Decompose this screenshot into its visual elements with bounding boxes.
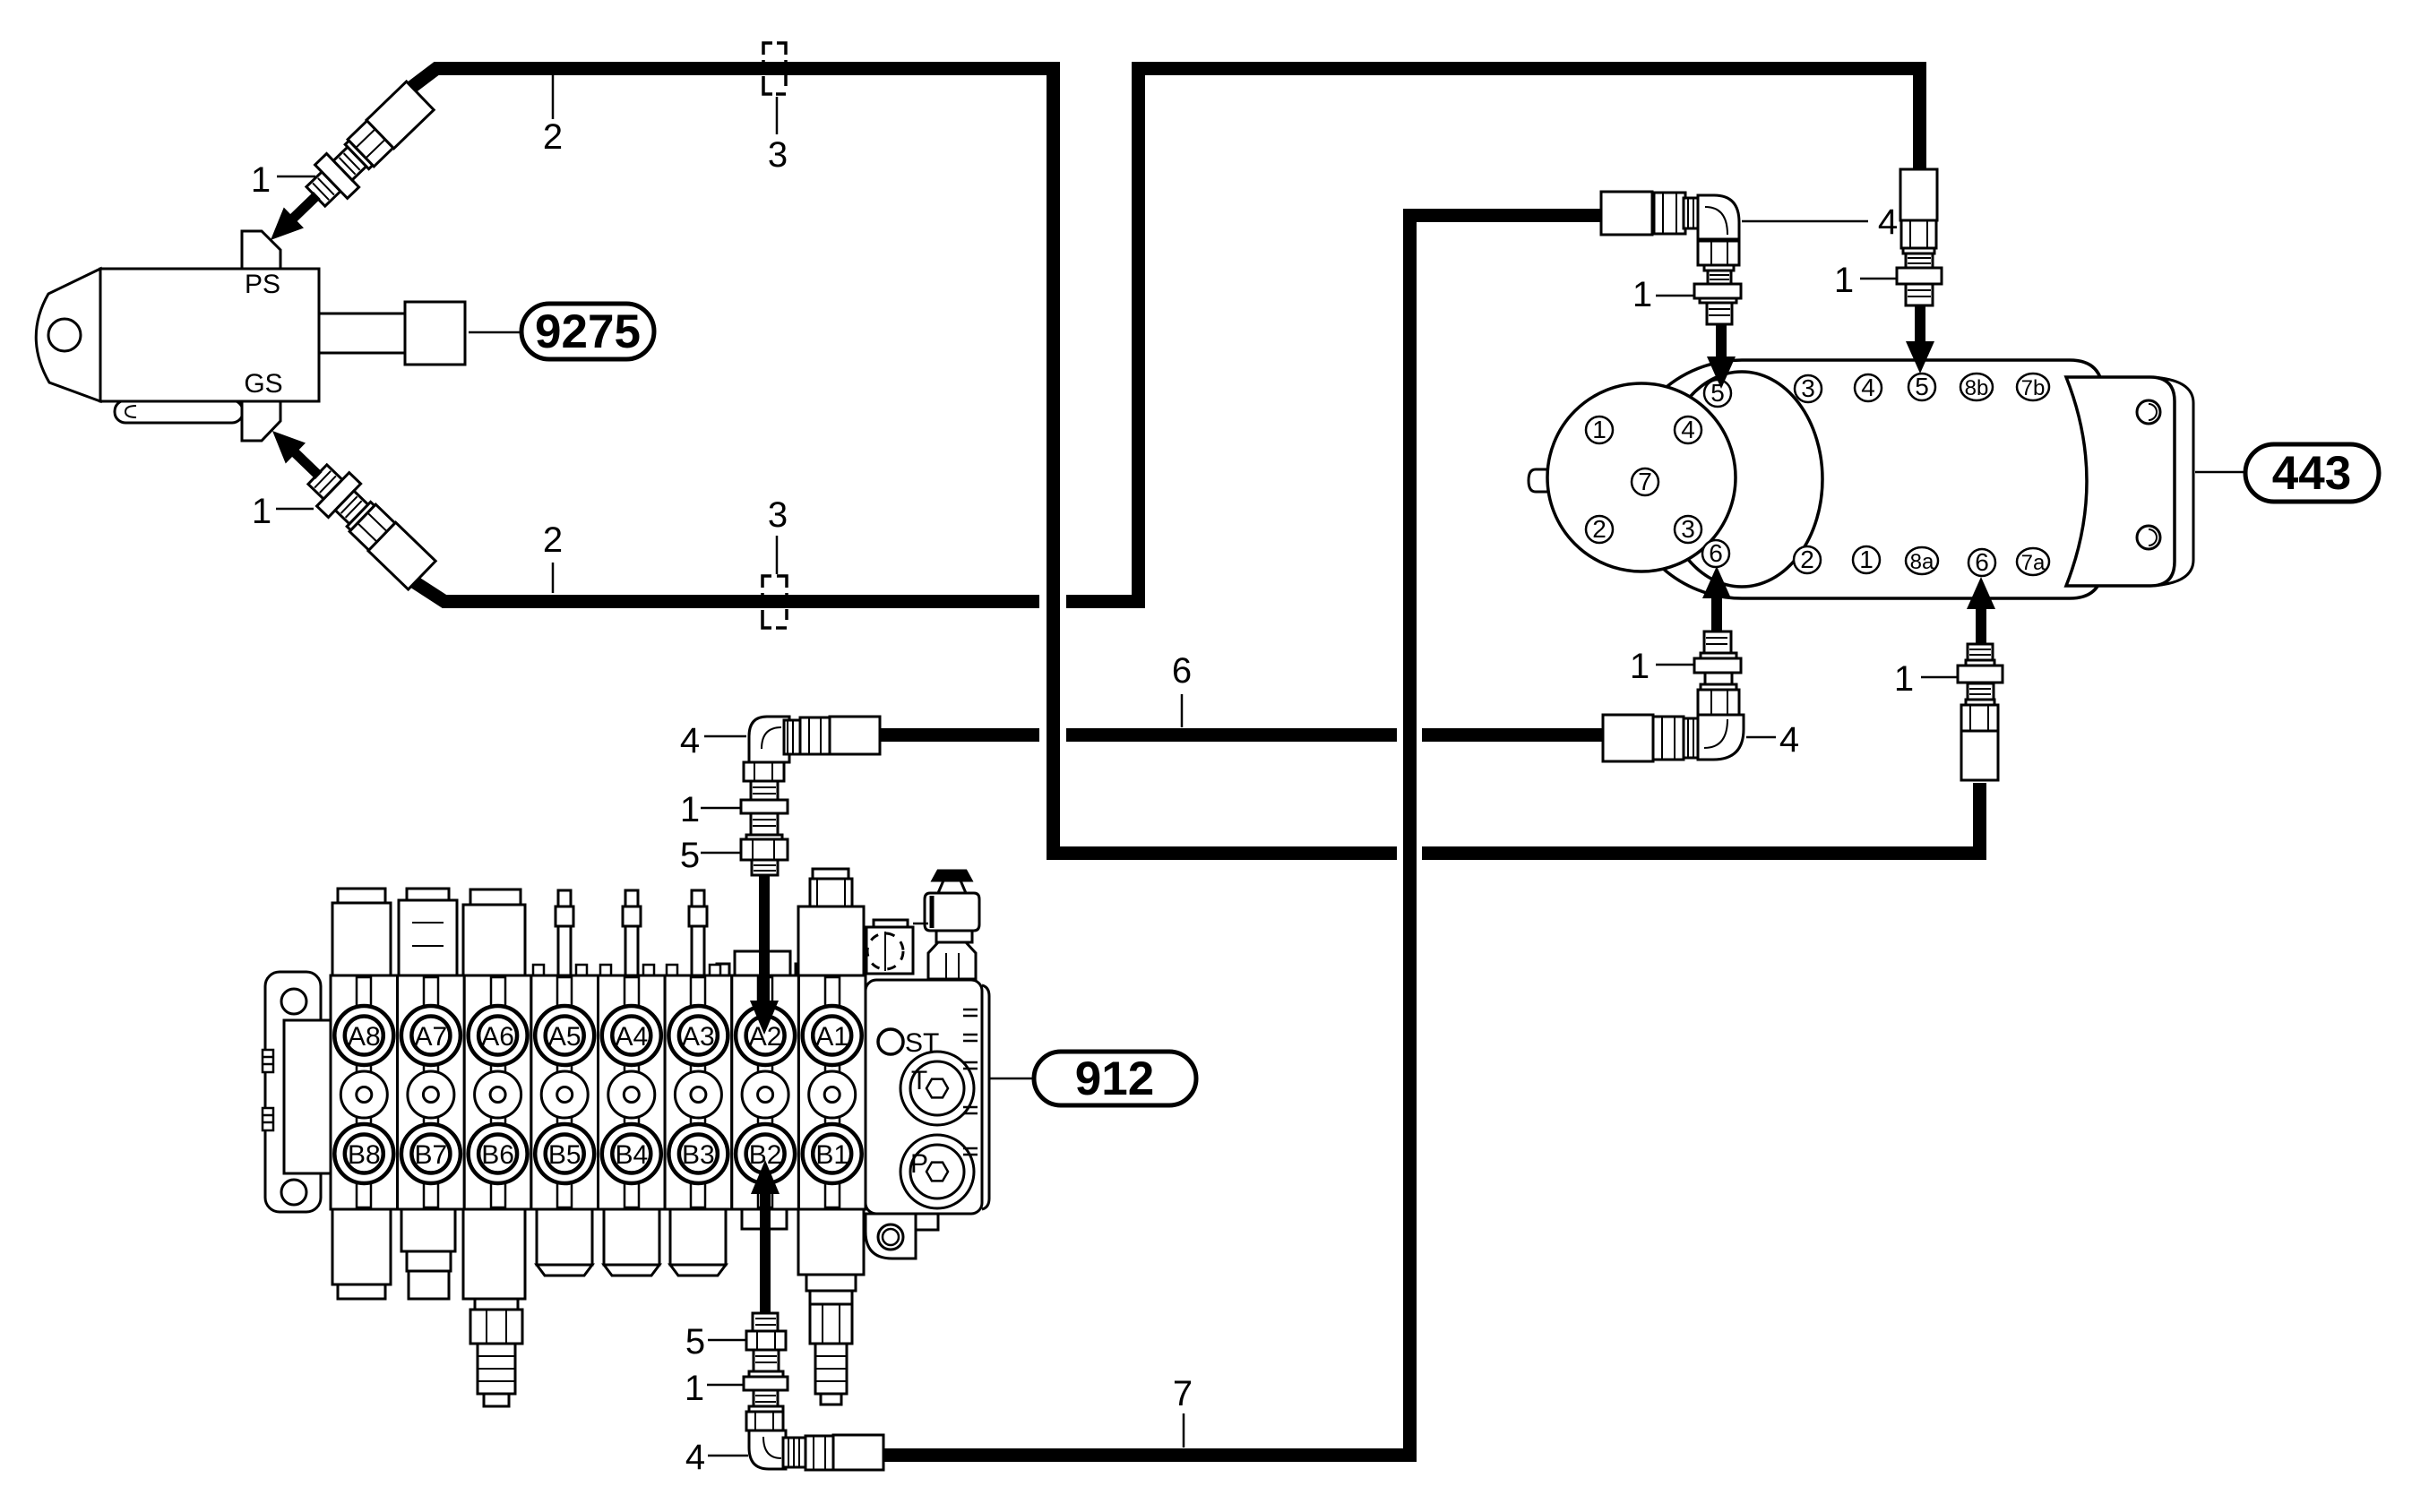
svg-text:6: 6 [1709, 539, 1723, 567]
fitting 1 below elbow (port 5) [1694, 265, 1741, 324]
front cover bolt 3 [1675, 516, 1701, 543]
motor port 5 top [1908, 374, 1935, 400]
motor port 6 lower-left [1702, 540, 1729, 567]
port B8 [334, 1124, 393, 1183]
front cover bolt 4 [1675, 417, 1701, 443]
svg-text:A1: A1 [815, 1022, 849, 1052]
motor port 2 bottom [1794, 546, 1821, 573]
svg-text:1: 1 [1834, 261, 1854, 300]
hose 2 (PS run lower, segment 2 after crossing riser) [1422, 783, 1980, 854]
fitting 5 at valve B2 [746, 1313, 786, 1377]
hose 6 segment 3 [1422, 728, 1605, 742]
front cover bolt 2 [1586, 516, 1613, 543]
fitting 1 below B2 [744, 1377, 788, 1412]
motor port 8b top [1960, 374, 1993, 400]
svg-text:8b: 8b [1965, 376, 1989, 400]
hose 2 (PS port to motor port 6, upper run then drop and lower run, segment 1) [405, 69, 1397, 854]
svg-text:PS: PS [245, 270, 280, 299]
spool center circle section 5 [541, 1071, 588, 1118]
svg-text:912: 912 [1075, 1052, 1154, 1105]
cylinder 9275 body [100, 269, 319, 401]
spool center circle section 7 [408, 1071, 454, 1118]
svg-text:2: 2 [543, 520, 563, 560]
valve section top tabs [533, 965, 544, 977]
elbow 4 above valve port A2 [744, 717, 880, 781]
svg-text:4: 4 [1861, 374, 1875, 401]
cylinder 9275 clevis [36, 269, 100, 401]
svg-text:B7: B7 [415, 1140, 448, 1170]
svg-text:7a: 7a [2021, 551, 2046, 575]
svg-text:7b: 7b [2021, 376, 2046, 400]
svg-text:2: 2 [543, 117, 563, 157]
port A1 [803, 1006, 862, 1065]
valve section 7 body [398, 975, 465, 1209]
fitting 5 at valve A2 [741, 839, 788, 875]
arrow into GS port [263, 420, 306, 463]
fitting 1 (at GS port, 45 deg) [256, 414, 438, 592]
inlet bottom bracket plate [866, 1214, 916, 1259]
port B4 [602, 1124, 661, 1183]
motor shaft stub [1529, 469, 1552, 492]
spool center circle section 8 [340, 1071, 387, 1118]
inlet end section body [866, 980, 982, 1214]
port T [900, 1052, 974, 1125]
cylinder 9275 rod end block [405, 302, 465, 365]
cylinder 9275 GS port block [242, 401, 280, 441]
svg-text:9275: 9275 [535, 305, 641, 358]
valve section 6 body [464, 975, 531, 1209]
port B3 [668, 1124, 728, 1183]
fitting 1 below elbow at A2 [741, 781, 788, 839]
arrow into motor port 6 bottom [1976, 609, 1986, 644]
spool center circle section 3 [675, 1071, 721, 1118]
svg-text:2: 2 [1800, 546, 1814, 573]
port A7 [401, 1006, 461, 1065]
spool center circle section 6 [475, 1071, 521, 1118]
cylinder 9275 clevis hole [48, 319, 81, 351]
svg-text:8a: 8a [1910, 550, 1934, 574]
side plug fitting with thread circle [866, 927, 913, 974]
svg-text:T: T [911, 1066, 927, 1095]
port A3 [668, 1006, 728, 1065]
svg-text:4: 4 [685, 1438, 705, 1477]
hose 2 (GS run, segment 2, riser and top run to motor port 5) [1066, 69, 1920, 602]
port B1 [803, 1124, 862, 1183]
port B2 [736, 1124, 795, 1183]
arrow into PS port [261, 207, 304, 250]
svg-text:A8: A8 [348, 1022, 381, 1052]
svg-text:3: 3 [1801, 374, 1815, 402]
svg-text:A3: A3 [682, 1022, 715, 1052]
fitting 1 above elbow (port 6) [1694, 631, 1741, 690]
svg-text:1: 1 [1859, 546, 1874, 573]
relief valve on inlet [925, 871, 979, 979]
elbow 4 at motor port 6 (bottom left, hose 6) [1603, 690, 1744, 761]
arrow into motor port 5 top [1915, 305, 1925, 343]
motor barrel end arc [1661, 372, 1822, 587]
svg-text:A5: A5 [548, 1022, 581, 1052]
valve block 912 mounting bracket [265, 972, 331, 1212]
arrow into motor port 5 upper-left [1716, 324, 1727, 357]
motor port 3 top [1795, 375, 1822, 402]
port A8 [334, 1006, 393, 1065]
flange bolt bottom [2137, 526, 2160, 549]
clamp 3 (lower hose) [762, 576, 787, 628]
motor port 7b top [2017, 374, 2049, 400]
svg-text:6: 6 [1172, 651, 1192, 691]
port B6 [469, 1124, 528, 1183]
port B5 [535, 1124, 594, 1183]
svg-text:5: 5 [680, 836, 700, 875]
hose 6 (valve A2 to motor port 6, segment 1) [878, 728, 1039, 742]
inlet edge tick marks [963, 1009, 978, 1155]
cylinder 9275 piston rod [319, 314, 406, 353]
fitting 1 at motor port 6 bottom (riser of hose 2) [1958, 644, 2003, 780]
valve section 2 body [732, 975, 799, 1209]
svg-text:B3: B3 [682, 1140, 715, 1170]
svg-text:4: 4 [1878, 202, 1898, 242]
svg-text:A6: A6 [481, 1022, 514, 1052]
motor port 1 bottom [1853, 546, 1880, 573]
motor port 7a bottom [2017, 548, 2049, 575]
svg-text:7: 7 [1173, 1374, 1193, 1413]
callout 912 [989, 1078, 1034, 1080]
arrow into motor port 6 lower-left [1711, 598, 1722, 631]
spool center circle section 2 [742, 1071, 788, 1118]
svg-text:B8: B8 [348, 1140, 381, 1170]
elbow 4 below B2 [746, 1412, 883, 1470]
inlet end plate [982, 985, 989, 1209]
bracket clip upper [263, 1050, 273, 1072]
valve section 1 body [798, 975, 866, 1209]
svg-text:GS: GS [244, 369, 282, 399]
svg-text:1: 1 [1630, 647, 1650, 686]
arrow into port B2 [760, 1191, 771, 1313]
port A4 [602, 1006, 661, 1065]
bracket bolt hole top [281, 989, 306, 1014]
port A2 [736, 1006, 795, 1065]
svg-text:5: 5 [1915, 373, 1929, 400]
spool center circle section 4 [608, 1071, 655, 1118]
port ST [878, 1029, 903, 1054]
svg-text:B4: B4 [615, 1140, 648, 1170]
valve section 4 body [599, 975, 666, 1209]
valve section 5 body [531, 975, 599, 1209]
svg-text:1: 1 [685, 1369, 704, 1408]
svg-text:3: 3 [1681, 515, 1695, 543]
motor port 4 top [1855, 374, 1882, 401]
svg-text:A4: A4 [615, 1022, 648, 1052]
svg-text:P: P [910, 1149, 928, 1179]
callout 9275 [469, 331, 521, 334]
fitting 1 (at PS port, 45 deg) [254, 79, 436, 257]
motor 443 body [1623, 360, 2103, 598]
motor port 8a bottom [1906, 547, 1938, 574]
svg-text:3: 3 [768, 495, 788, 535]
port A5 [535, 1006, 594, 1065]
svg-text:4: 4 [1779, 720, 1799, 760]
arrow into port A2 [759, 875, 770, 1002]
svg-text:4: 4 [1681, 416, 1695, 443]
hose 7 (valve B2 to motor port 5, run and riser) [882, 216, 1604, 1456]
inlet bottom bracket hole [878, 1224, 903, 1250]
elbow 4 at motor port 5 (top) [1601, 192, 1739, 265]
svg-text:B1: B1 [815, 1140, 849, 1170]
svg-text:443: 443 [2272, 447, 2351, 500]
svg-text:1: 1 [1592, 416, 1607, 443]
motor port 6 bottom [1968, 549, 1995, 576]
port B7 [401, 1124, 461, 1183]
callout 443 [2195, 471, 2245, 474]
svg-text:2: 2 [1592, 515, 1607, 543]
motor mounting flange [2066, 377, 2175, 586]
motor front cover circle [1547, 383, 1736, 571]
hose 2 (GS port lower run, segment 1) [405, 576, 1039, 602]
svg-text:3: 3 [768, 135, 788, 175]
valve section top caps [332, 869, 864, 978]
valve section 8 body [331, 975, 398, 1209]
svg-text:B6: B6 [481, 1140, 514, 1170]
svg-text:1: 1 [1632, 275, 1652, 314]
svg-text:1: 1 [1894, 659, 1914, 699]
motor port 5 upper-left [1704, 380, 1731, 407]
front cover center 7 [1632, 468, 1658, 495]
svg-text:1: 1 [252, 492, 271, 531]
cylinder 9275 PS port block [242, 231, 280, 269]
svg-text:4: 4 [680, 721, 700, 760]
svg-text:7: 7 [1638, 468, 1652, 495]
flange bolt top [2137, 400, 2160, 424]
hose 6 segment 2 [1066, 728, 1397, 742]
port A6 [469, 1006, 528, 1065]
bracket bolt hole bottom [281, 1180, 306, 1205]
svg-text:6: 6 [1975, 548, 1989, 576]
bracket clip lower [263, 1108, 273, 1130]
valve section 3 body [665, 975, 732, 1209]
front cover bolt 1 [1586, 417, 1613, 443]
flange outer edge [2152, 377, 2193, 586]
spool center circle section 1 [809, 1071, 856, 1118]
cylinder 9275 cushion tube [115, 400, 243, 423]
svg-text:B5: B5 [548, 1140, 581, 1170]
svg-text:5: 5 [685, 1322, 705, 1362]
svg-text:A7: A7 [415, 1022, 448, 1052]
valve section bottom caps [332, 1209, 864, 1406]
clamp 3 (upper hose) [763, 43, 786, 94]
fitting 1 at motor port 5 top (from hose 2) [1897, 169, 1942, 305]
svg-text:1: 1 [680, 790, 700, 829]
port P [900, 1135, 974, 1208]
svg-text:1: 1 [251, 160, 271, 200]
